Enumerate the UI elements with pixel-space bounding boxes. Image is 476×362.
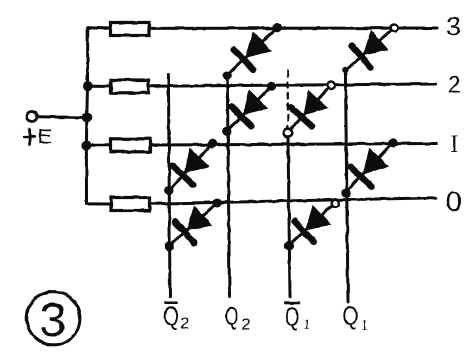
diode D7 row0-Qbar2 — [169, 203, 217, 247]
svg-text:I: I — [450, 132, 458, 158]
node D2 row3 ring — [390, 24, 398, 32]
diode D8 row0-Qbar1 — [289, 203, 335, 246]
svg-text:Q: Q — [163, 301, 179, 331]
junction D1 Q2 top — [223, 71, 232, 80]
node D4 row2 ring — [327, 82, 335, 90]
svg-text:3: 3 — [446, 12, 461, 42]
svg-text:Q: Q — [225, 301, 239, 331]
diode D2 row3-Q1 — [345, 28, 394, 70]
junction D1 row3 — [272, 23, 281, 32]
diode D1 row3-Q2 — [227, 28, 277, 75]
column Q1 — [345, 70, 348, 302]
wire row2 output — [149, 84, 437, 86]
junction D7 Qbar2 — [164, 242, 173, 251]
resistor R2 — [111, 80, 149, 93]
label Qbar1 — [284, 302, 311, 334]
diode D4 row2-Qbar1 — [288, 85, 331, 132]
wire row3 bus to R3 — [88, 26, 111, 30]
junction D8 Qbar1 — [284, 241, 293, 250]
svg-text:E: E — [38, 125, 52, 149]
node D4 Qbar1 ring — [284, 129, 292, 137]
junction D6 row1 — [388, 138, 397, 147]
junction D5 row1 — [207, 139, 216, 148]
label +E plus sign — [24, 129, 35, 144]
svg-text:1: 1 — [303, 317, 311, 333]
junction bus row1 — [81, 140, 91, 150]
junction D6 Q1 — [342, 188, 351, 197]
svg-text:2: 2 — [448, 71, 462, 98]
wire row0 output — [150, 198, 436, 204]
diode D3 row2-Q2 — [227, 86, 272, 131]
node D8 row0 ring — [332, 199, 340, 207]
resistor R3 — [111, 23, 150, 36]
svg-text:0: 0 — [446, 186, 461, 217]
column Q_bar1 upper dashed segment — [287, 71, 289, 128]
wire row2 bus to R2 — [88, 85, 112, 88]
svg-text:1: 1 — [361, 318, 369, 334]
wire row1 output — [151, 144, 437, 146]
column Q2 — [227, 75, 229, 297]
label Qbar2 — [163, 301, 189, 332]
svg-text:3: 3 — [40, 294, 67, 347]
svg-text:Q: Q — [285, 302, 300, 332]
diode D6 row1-Q1 — [345, 142, 393, 193]
junction D3 Q2 — [222, 126, 231, 135]
resistor R1 — [111, 139, 151, 152]
junction D2 Q1 top — [342, 67, 348, 73]
junction D3 row2 — [267, 81, 276, 90]
column Q_bar1 — [288, 137, 290, 297]
svg-text:2: 2 — [180, 315, 189, 332]
supply bus — [86, 28, 87, 204]
wire row3 output — [149, 27, 437, 30]
label Q1 — [342, 301, 368, 334]
svg-text:2: 2 — [242, 315, 251, 333]
wire row1 bus to R1 — [86, 144, 110, 147]
wire +E to bus — [38, 115, 87, 119]
resistor R0 — [111, 198, 150, 211]
junction D7 row0 — [212, 198, 221, 207]
wire row0 bus to R0 — [87, 202, 112, 205]
label Q2 — [225, 301, 251, 333]
diode D5 row1-Qbar2 — [169, 144, 212, 191]
junction bus row2 — [83, 81, 93, 91]
column Q_bar2 — [168, 75, 170, 297]
junction bus +E — [82, 113, 92, 123]
terminal +E — [27, 112, 37, 122]
figure number circle — [27, 292, 80, 345]
svg-text:Q: Q — [342, 301, 358, 331]
junction D5 Qbar2 — [164, 186, 173, 195]
